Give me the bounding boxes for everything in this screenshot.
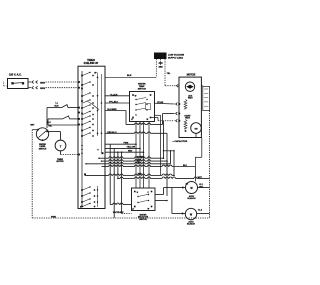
svg-text:WDG: WDG xyxy=(185,118,190,120)
svg-text:MOTOR: MOTOR xyxy=(56,161,64,163)
svg-text:SWITCH: SWITCH xyxy=(138,89,147,91)
svg-text:SWITCH: SWITCH xyxy=(39,148,47,150)
svg-text:BLK: BLK xyxy=(55,105,60,107)
svg-text:W: W xyxy=(147,119,149,121)
svg-text:SWITCH: SWITCH xyxy=(139,219,147,221)
svg-text:SUPPLY LEAD: SUPPLY LEAD xyxy=(168,56,183,59)
svg-text:+ CAPACITOR: + CAPACITOR xyxy=(173,140,188,143)
svg-text:GRY: GRY xyxy=(30,124,35,126)
svg-text:L7: L7 xyxy=(132,209,134,211)
svg-text:BLK: BLK xyxy=(127,75,132,77)
svg-text:WDG: WDG xyxy=(188,98,193,100)
svg-text:L7: L7 xyxy=(131,119,133,121)
svg-text:CL2: CL2 xyxy=(199,184,203,186)
svg-text:W: W xyxy=(148,209,150,211)
svg-text:BRN: BRN xyxy=(40,82,45,84)
svg-text:W: W xyxy=(135,95,137,97)
svg-text:BLK: BLK xyxy=(47,122,52,124)
svg-text:KXEL/500 UP: KXEL/500 UP xyxy=(84,63,99,65)
svg-text:LOW VOLTAGE: LOW VOLTAGE xyxy=(168,53,184,56)
svg-text:BLEACH: BLEACH xyxy=(187,223,196,226)
svg-text:TIMER: TIMER xyxy=(87,59,95,62)
svg-text:BRN: BRN xyxy=(40,88,45,90)
svg-text:BLEACH: BLEACH xyxy=(188,197,197,200)
svg-text:MOTOR: MOTOR xyxy=(187,75,196,77)
svg-text:SW: SW xyxy=(194,128,197,130)
svg-text:D1: D1 xyxy=(186,184,188,186)
svg-text:220 V. A.C.: 220 V. A.C. xyxy=(9,74,22,77)
svg-text:C1-2: C1-2 xyxy=(198,210,202,212)
